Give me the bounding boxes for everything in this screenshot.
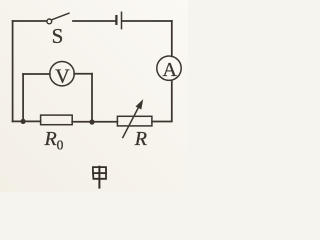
wire: top-middle segment from switch to battery [73, 20, 115, 22]
switch S blade (open) [52, 13, 69, 20]
junction node (left, R0/voltmeter/battery rail) [21, 119, 25, 123]
rheostat arrow head [136, 100, 142, 109]
battery negative plate (short thick) [115, 16, 117, 24]
wire: voltmeter branch right horizontal [74, 73, 92, 75]
wire: left vertical rail [12, 21, 14, 121]
svg-text:A: A [162, 59, 177, 81]
ammeter A (circle) [157, 56, 181, 80]
switch S (pivot circle) [47, 19, 52, 24]
svg-text:R: R [43, 128, 56, 150]
wire: voltmeter branch left vertical [22, 74, 24, 121]
wire: segment R0 to right junction [72, 121, 92, 123]
wire: bottom-left segment corner to R0 [13, 120, 41, 122]
circuit schematic: series circuit with switch S, battery, ammeter A, rheostat R, fixed resistor R0, voltmeter V across R0 [0, 0, 188, 192]
battery positive plate (long thin) [121, 12, 123, 28]
resistor R0 (box) [41, 115, 73, 125]
wire: voltmeter branch left horizontal [23, 73, 50, 75]
rheostat R (box) [117, 116, 151, 126]
wire: bottom segment rheostat to right junction [92, 121, 117, 123]
svg-text:V: V [55, 66, 70, 88]
junction node (right, R0/rheostat/voltmeter) [90, 120, 94, 124]
wire: top-left segment to switch [13, 20, 47, 22]
voltmeter V (circle) [50, 61, 74, 85]
wire: top-right segment from battery to corner [122, 20, 172, 22]
wire: right rail lower (ammeter down to bottom corner) [152, 81, 172, 122]
caption 甲 (drawn, CJK glyph "jiǎ") [93, 167, 106, 188]
rheostat R arrow (diagonal) [123, 106, 140, 138]
svg-text:R: R [134, 128, 147, 150]
wire: voltmeter branch right vertical [91, 74, 93, 122]
wire: right rail upper (corner down to ammeter) [171, 21, 173, 56]
svg-text:S: S [52, 24, 64, 48]
svg-text:0: 0 [57, 137, 64, 152]
